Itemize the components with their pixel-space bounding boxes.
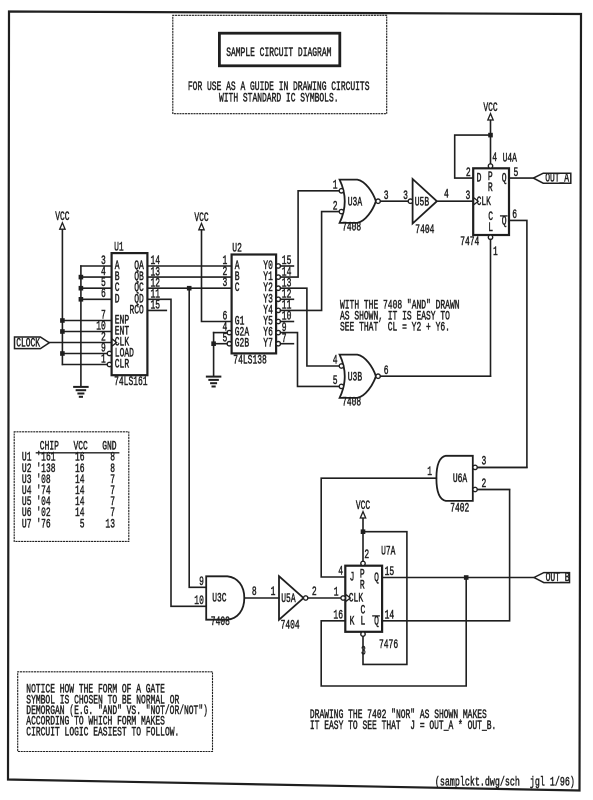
- wire: U7A Qbar to U6A pin 2: [382, 490, 510, 621]
- U7A CLK bubble and wedge: [341, 596, 345, 600]
- decoder U2 74LS138: [232, 255, 277, 354]
- svg-text:4: 4: [444, 188, 449, 202]
- svg-text:1: 1: [427, 465, 432, 479]
- svg-text:7476: 7476: [379, 638, 398, 652]
- svg-text:74LS138: 74LS138: [233, 354, 266, 368]
- svg-text:1: 1: [334, 586, 339, 600]
- svg-text:2: 2: [333, 199, 338, 213]
- wire: U3B output along CL net: [380, 375, 490, 377]
- svg-text:Q: Q: [502, 172, 507, 186]
- input flag CLOCK: [15, 337, 50, 349]
- wire: U2 G2A G2B to ground: [214, 332, 228, 334]
- U2 output bubbles Y0-Y7: [276, 264, 280, 268]
- wire: U2 Y2 to U3B pin 4: [281, 288, 340, 366]
- wire: U1 QD to U3C pin 10: [147, 299, 206, 606]
- output flag OUT_B: [534, 573, 570, 583]
- svg-text:5: 5: [333, 374, 338, 388]
- svg-text:OUT_B: OUT_B: [546, 571, 570, 585]
- svg-text:U5A: U5A: [281, 592, 296, 606]
- junction dots on U1 VCC rail: [60, 318, 65, 323]
- NOR gate U6A 7402 (DeMorgan AND form, mirrored): [436, 456, 472, 501]
- wire: U1 QA to U2 A: [147, 265, 231, 267]
- U2 G2A bubble: [227, 330, 231, 334]
- wire: U6A output to U7A J: [321, 478, 436, 577]
- svg-text:1: 1: [333, 178, 338, 192]
- svg-text:U6A: U6A: [453, 472, 468, 486]
- svg-text:3: 3: [466, 189, 471, 203]
- AND gate U3A 7408 (DeMorgan NOT/OR/NOT form): [340, 180, 376, 223]
- svg-text:13: 13: [105, 517, 115, 531]
- wire: U2 Y7 stub: [281, 343, 294, 345]
- svg-text:4: 4: [333, 354, 338, 368]
- wire: U5B output to U4A CLK: [437, 200, 473, 202]
- svg-text:2: 2: [364, 548, 369, 562]
- svg-text:3: 3: [223, 276, 228, 290]
- svg-text:7404: 7404: [281, 619, 300, 633]
- svg-text:4: 4: [492, 151, 497, 165]
- AND gate U3B 7408 (DeMorgan NOT/OR/NOT form): [340, 355, 376, 398]
- wire: U1 QC to U2 C and to U3C pin 9: [147, 287, 231, 289]
- note: DeMorgan explanation (dotted box): [18, 672, 213, 752]
- svg-text:CIRCUIT LOGIC EASIEST TO FOLLO: CIRCUIT LOGIC EASIEST TO FOLLOW.: [26, 725, 179, 739]
- U4A CL bubble: [488, 235, 492, 239]
- wire: U3B output to U4A CL: [490, 240, 492, 377]
- svg-text:U7: U7: [22, 517, 32, 531]
- wire: U2 Y3 stub: [281, 298, 294, 300]
- wire: U7A K feedback loop from Q: [321, 578, 466, 687]
- junction dot QC: [187, 286, 192, 291]
- junction dot OUT_B net: [464, 575, 469, 580]
- svg-text:1: 1: [493, 245, 498, 259]
- junction dot U4A VCC: [488, 133, 493, 138]
- inverter U5B 7404 (DeMorgan, input bubble): [413, 179, 437, 224]
- U1 CLK wedge: [112, 339, 117, 347]
- svg-text:U7A: U7A: [381, 545, 396, 559]
- junction dots on ground rail: [79, 275, 84, 280]
- svg-text:8: 8: [252, 585, 257, 599]
- wire: U1 QB to U2 B: [147, 276, 231, 278]
- inverter U5A 7404 (normal form): [279, 576, 304, 620]
- junction dot U7A VCC: [361, 529, 366, 534]
- svg-text:CLR: CLR: [115, 358, 130, 372]
- svg-text:SAMPLE CIRCUIT DIAGRAM: SAMPLE CIRCUIT DIAGRAM: [226, 46, 331, 60]
- junction dot G2B: [211, 341, 216, 346]
- svg-text:U4A: U4A: [503, 152, 518, 166]
- svg-text:IT EASY TO SEE THAT J = OUT_A: IT EASY TO SEE THAT J = OUT_A * OUT_B.: [310, 719, 496, 733]
- svg-text:K: K: [350, 614, 355, 628]
- svg-text:G2B: G2B: [235, 337, 250, 351]
- wire: U1 A B C D to ground rail: [80, 266, 82, 386]
- svg-text:U2: U2: [232, 242, 242, 256]
- svg-text:R: R: [360, 579, 365, 593]
- svg-text:1: 1: [271, 585, 276, 599]
- svg-text:U3A: U3A: [348, 195, 363, 209]
- svg-text:7402: 7402: [450, 501, 469, 515]
- wire: CLOCK to U1 CLK: [49, 342, 111, 344]
- AND gate U3C 7408 (normal form): [206, 576, 244, 619]
- wire: U2 Y1 to U3A pin 1: [281, 191, 340, 277]
- JK flip-flop U7A 7476: [345, 566, 382, 632]
- svg-text:7408: 7408: [342, 221, 361, 235]
- wire: VCC to U4A PR and D: [490, 120, 492, 164]
- svg-text:Y7: Y7: [263, 337, 273, 351]
- ground symbol (U1 data inputs): [74, 386, 88, 388]
- svg-text:7408: 7408: [342, 396, 361, 410]
- svg-text:CLK: CLK: [477, 195, 492, 209]
- svg-text:U3C: U3C: [212, 592, 226, 606]
- svg-text:9: 9: [199, 575, 204, 589]
- wire: U5A output to U7A CLK: [308, 597, 341, 599]
- U6A input wires: [477, 466, 527, 468]
- svg-text:7474: 7474: [460, 235, 479, 249]
- svg-text:5: 5: [80, 517, 85, 531]
- svg-text:3: 3: [403, 189, 408, 203]
- U2 G2B bubble: [227, 342, 231, 346]
- wire: U2 Y4 to U3A pin 2: [281, 212, 340, 311]
- svg-text:WITH STANDARD IC SYMBOLS.: WITH STANDARD IC SYMBOLS.: [219, 91, 339, 105]
- svg-text:L: L: [488, 221, 493, 235]
- svg-text:L: L: [361, 615, 366, 629]
- U7A PR bubble: [361, 561, 365, 565]
- svg-text:U5B: U5B: [415, 195, 430, 209]
- svg-text:7408: 7408: [211, 615, 230, 629]
- wire: U2 Y5 stub: [281, 321, 294, 323]
- wire: U3A output to U5B input: [380, 200, 408, 202]
- svg-text:J: J: [350, 571, 355, 585]
- svg-text:Q: Q: [374, 571, 379, 585]
- svg-text:C: C: [235, 281, 240, 295]
- wire: VCC rail to U1 ENP ENT LOAD CLR: [61, 229, 63, 364]
- svg-text:'76: '76: [36, 517, 50, 531]
- note box: title block (dotted): [173, 15, 387, 113]
- svg-text:7404: 7404: [415, 223, 434, 237]
- title box: [219, 33, 339, 66]
- svg-text:SEE THAT CL = Y2 + Y6.: SEE THAT CL = Y2 + Y6.: [340, 321, 450, 335]
- svg-text:(samplckt.dwg/sch jgl 1/96): (samplckt.dwg/sch jgl 1/96): [435, 775, 575, 789]
- svg-text:OUT_A: OUT_A: [545, 172, 569, 186]
- svg-text:RCO: RCO: [130, 303, 144, 317]
- U4A PR bubble: [488, 164, 492, 168]
- wire: VCC to U2 G1: [202, 230, 232, 322]
- svg-text:CLOCK: CLOCK: [16, 336, 40, 350]
- svg-text:2: 2: [312, 585, 317, 599]
- counter U1 74LS161: [112, 253, 148, 375]
- wire: U4A Qbar to U6A pin 3: [477, 220, 527, 467]
- svg-text:74LS161: 74LS161: [114, 375, 148, 389]
- table: chip power pins (dotted box): [14, 432, 129, 542]
- U7A CL bubble: [361, 632, 365, 636]
- wire: U2 Y6 to U3B pin 5: [281, 333, 340, 387]
- svg-text:U1: U1: [114, 240, 124, 254]
- D flip-flop U4A 7474: [473, 168, 509, 235]
- wire: U1 RCO stub: [147, 309, 166, 311]
- wire: U4A Q to OUT_A: [509, 177, 533, 179]
- svg-text:R: R: [488, 181, 493, 195]
- U1 LOAD bubble: [107, 351, 111, 355]
- wire: U3C output to U5A input: [244, 597, 279, 599]
- svg-text:D: D: [477, 172, 482, 186]
- wire: U7A Q to OUT_B: [382, 577, 534, 579]
- svg-text:10: 10: [194, 594, 204, 608]
- U4A CLK wedge: [473, 197, 478, 205]
- svg-text:D: D: [115, 292, 120, 306]
- svg-text:U3B: U3B: [348, 370, 363, 384]
- U1 CLR bubble: [107, 362, 111, 366]
- ground symbol (U2 enables): [207, 376, 221, 378]
- wire: U2 Y0 stub: [281, 265, 294, 267]
- wire: VCC to U7A PR and CL: [362, 518, 364, 561]
- output flag OUT_A: [533, 173, 570, 183]
